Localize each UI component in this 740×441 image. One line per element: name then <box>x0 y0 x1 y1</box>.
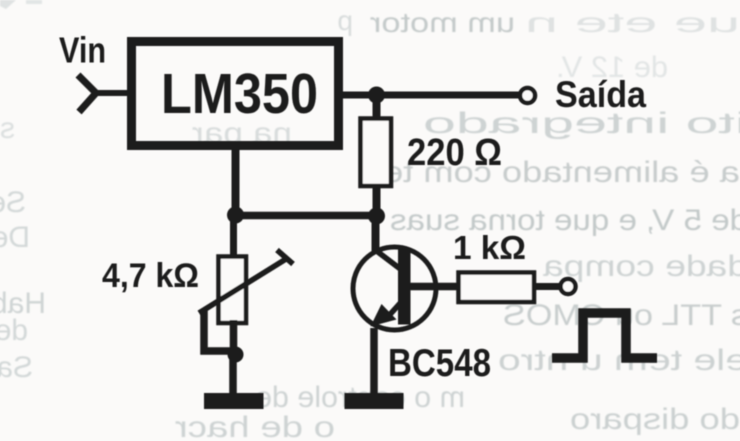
wire 1k to terminal <box>534 283 561 290</box>
svg-text:de 5 V, e que torna suas: de 5 V, e que torna suas <box>390 204 740 237</box>
svg-text:do disparo: do disparo <box>570 403 740 436</box>
node pot bottom junction <box>228 347 244 363</box>
wire junction to resistor R 220 <box>373 95 381 121</box>
svg-text:BC548: BC548 <box>388 342 491 385</box>
potentiometer arrow diagonal <box>199 259 286 313</box>
wire junction to potentiometer <box>230 215 237 257</box>
transistor base bar <box>398 250 411 325</box>
potentiometer P1 4,7k body <box>219 257 247 324</box>
bleed-through mirrored text from reverse page <box>0 0 1 1</box>
svg-text:Se: Se <box>0 186 26 219</box>
wire LM350 output to Saída terminal <box>343 92 519 99</box>
svg-text:ele tem u ntro: ele tem u ntro <box>498 344 740 377</box>
svg-text:Sa: Sa <box>0 351 33 384</box>
svg-text:220 Ω: 220 Ω <box>407 132 502 174</box>
svg-text:Saída: Saída <box>555 74 646 115</box>
resistor 220 ohm <box>361 119 392 187</box>
svg-text:De: De <box>0 221 30 254</box>
ground right bar <box>345 393 404 409</box>
circuit ink <box>59 30 657 410</box>
pulse waveform symbol <box>552 313 657 358</box>
svg-text:o de hacr: o de hacr <box>175 411 335 441</box>
wire pot bottom to node <box>230 320 238 356</box>
svg-text:ue ete n: ue ete n <box>525 7 740 38</box>
transistor emitter stroke <box>385 300 403 320</box>
svg-text:4,7 kΩ: 4,7 kΩ <box>102 257 199 295</box>
node output junction <box>368 87 385 104</box>
resistor 1k <box>459 273 535 303</box>
svg-text:um motor: um motor <box>370 7 515 38</box>
svg-text:1 kΩ: 1 kΩ <box>453 229 526 266</box>
ground left bar <box>204 393 264 409</box>
wire horizontal rail <box>235 212 377 220</box>
svg-text:p: p <box>337 5 353 36</box>
input arrow <box>78 75 96 112</box>
wire LM350 adjust pin down <box>232 148 240 216</box>
node rail left junction <box>227 207 244 224</box>
node rail right junction <box>368 208 385 225</box>
terminal input (open circle) <box>561 279 576 294</box>
svg-text:se: se <box>0 112 15 145</box>
wire wiper bend <box>204 311 235 351</box>
corner smudges <box>0 0 16 9</box>
terminal Saída (open circle) <box>520 88 535 103</box>
transistor Q1 circle <box>353 247 436 330</box>
potentiometer arrow tick <box>277 250 293 264</box>
wire rail junction to transistor collector <box>372 216 380 252</box>
wire node to ground <box>229 354 237 394</box>
transistor collector stroke <box>374 249 403 271</box>
svg-text:de: de <box>0 314 28 347</box>
svg-text:LM350: LM350 <box>161 62 318 126</box>
IC U1 LM350 box <box>132 42 339 146</box>
wire input to LM350 <box>94 90 131 96</box>
transistor emitter arrowhead <box>371 304 397 327</box>
svg-text:Vin: Vin <box>59 30 106 71</box>
wire base lead <box>410 283 458 291</box>
wire resistor bottom to rail <box>373 184 381 218</box>
wire emitter to ground <box>370 328 378 394</box>
